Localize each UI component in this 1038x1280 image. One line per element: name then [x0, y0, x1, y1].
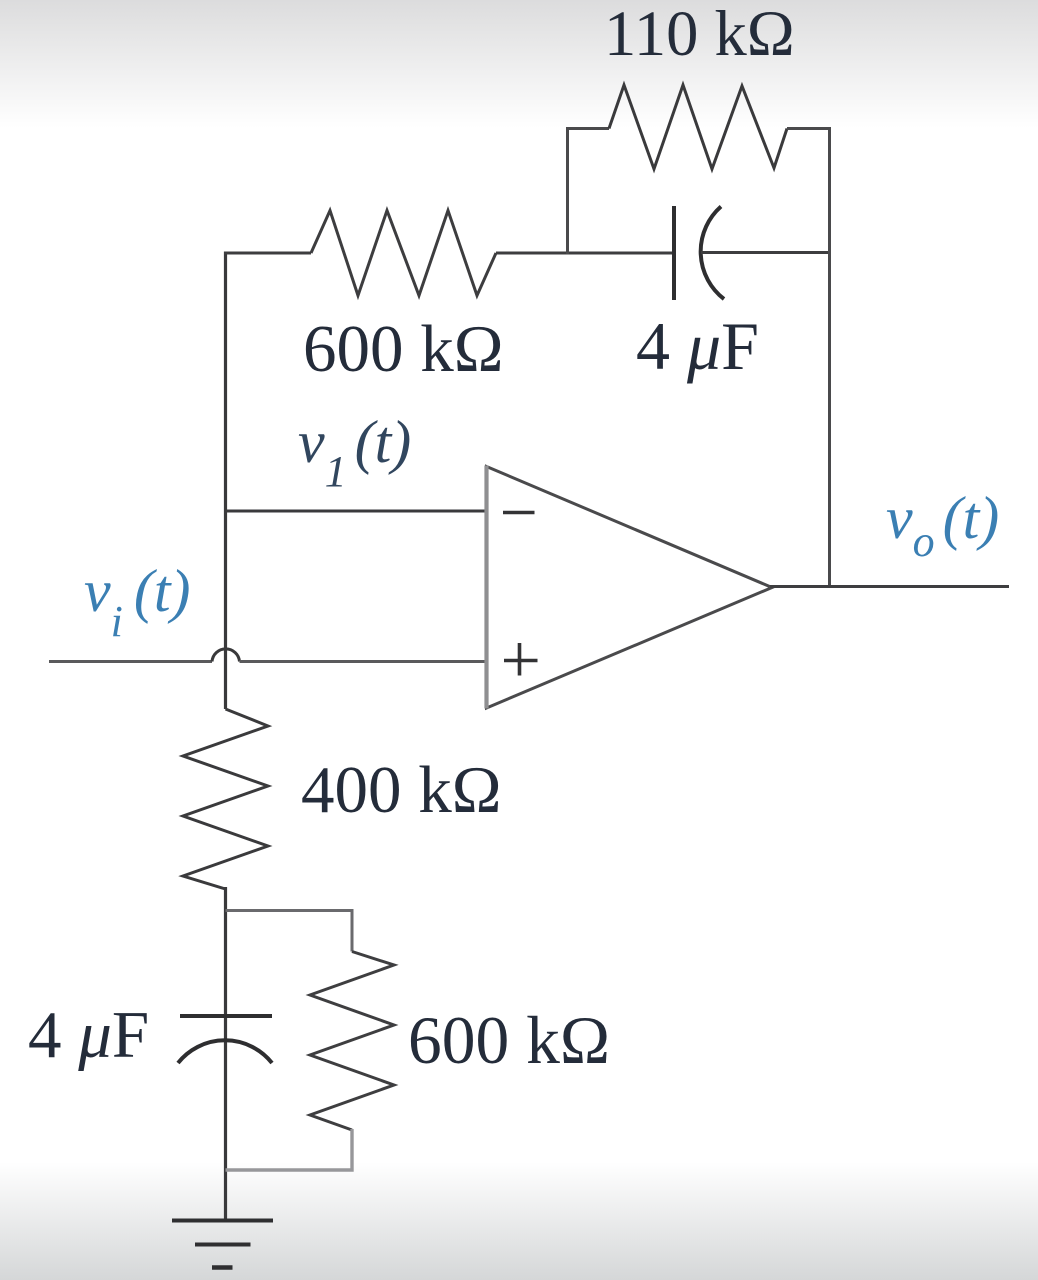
svg-text:400 kΩ: 400 kΩ — [301, 753, 502, 827]
op-amp U1 triangle — [487, 467, 773, 709]
wire: v1 wire to inverting input — [224, 510, 487, 513]
capacitor 4 uF (top, series) curved plate — [701, 207, 724, 300]
wire: top feedback horizontal left stub — [224, 252, 311, 255]
wire: branch from 600k bottom back to bus (gray) — [226, 1129, 353, 1170]
svg-text:600 kΩ: 600 kΩ — [303, 312, 504, 386]
resistor 110 kOhm (parallel feedback) — [609, 85, 787, 169]
wire: output wire — [770, 585, 1009, 588]
op-amp plus sign (non-inverting input) — [504, 643, 538, 676]
wire: hop (crossover bump) over vertical bus — [212, 649, 240, 662]
wire: feedback wire from capacitor to right vertical — [701, 251, 829, 254]
wire: branch to 600k top (gray) — [226, 911, 353, 952]
resistor 400 kOhm (vertical) — [183, 709, 268, 889]
resistor 600 kOhm (bottom, vertical) — [310, 952, 394, 1131]
wire: input wire right of hop to non-inverting input — [240, 660, 488, 663]
svg-text:600 kΩ: 600 kΩ — [408, 1003, 610, 1078]
wire: 110k loop top-right stub and right vertical down to output — [787, 129, 830, 587]
op-amp minus sign (inverting input) — [503, 511, 535, 515]
capacitor 4 uF (bottom) curved plate — [178, 1040, 272, 1063]
op-amp left edge (lighter) — [484, 466, 488, 709]
svg-text:4 μF: 4 μF — [636, 308, 759, 384]
wire: vertical from 400k down to capacitor — [224, 887, 227, 1219]
wire: 110k loop left vertical and top stub — [568, 129, 610, 255]
svg-text:4 μF: 4 μF — [28, 998, 149, 1072]
svg-text:110 kΩ: 110 kΩ — [604, 0, 795, 69]
capacitor 4 uF (bottom) top plate — [180, 1014, 272, 1018]
wire: feedback wire from 600k to capacitor — [496, 252, 673, 255]
wire: input wire left of hop — [49, 660, 212, 663]
resistor 600 kOhm (top feedback) — [311, 211, 496, 296]
capacitor 4 uF (top, series) left plate — [672, 206, 676, 300]
wire: main left vertical (inverting-node bus) — [224, 252, 227, 710]
ground symbol — [172, 1221, 273, 1268]
